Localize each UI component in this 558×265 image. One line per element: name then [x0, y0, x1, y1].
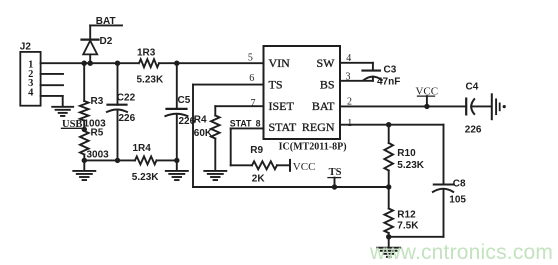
svg-text:226: 226 [119, 113, 136, 124]
svg-text:1R3: 1R3 [137, 48, 156, 59]
svg-text:5.23K: 5.23K [397, 160, 424, 171]
svg-text:5.23K: 5.23K [137, 75, 164, 86]
svg-text:TS: TS [269, 77, 283, 91]
svg-text:BS: BS [320, 77, 335, 91]
svg-text:ISET: ISET [269, 99, 295, 113]
svg-text:7.5K: 7.5K [397, 221, 419, 232]
svg-text:1: 1 [347, 118, 352, 129]
svg-text:3003: 3003 [87, 150, 110, 161]
svg-text:C3: C3 [384, 64, 397, 75]
svg-text:R5: R5 [91, 128, 104, 139]
svg-text:www.cntronics.com: www.cntronics.com [369, 241, 553, 264]
svg-text:STAT: STAT [269, 120, 297, 134]
svg-text:47nF: 47nF [377, 76, 400, 87]
svg-text:R12: R12 [397, 209, 416, 220]
svg-text:TS: TS [329, 167, 342, 178]
svg-text:R3: R3 [91, 96, 104, 107]
svg-text:C8: C8 [453, 179, 466, 190]
svg-text:5.23K: 5.23K [132, 172, 159, 183]
svg-text:C22: C22 [117, 92, 136, 103]
svg-text:R10: R10 [397, 148, 416, 159]
svg-text:2K: 2K [252, 173, 266, 184]
svg-text:IC(MT2011-8P): IC(MT2011-8P) [279, 140, 347, 152]
svg-text:VIN: VIN [269, 56, 291, 70]
svg-text:C5: C5 [178, 95, 191, 106]
svg-text:REGN: REGN [302, 120, 335, 134]
svg-text:60K: 60K [194, 128, 213, 139]
svg-text:4: 4 [28, 88, 34, 99]
svg-text:C4: C4 [466, 81, 479, 92]
svg-text:STAT 8: STAT 8 [230, 118, 261, 128]
svg-text:D2: D2 [100, 36, 113, 47]
svg-text:BAT: BAT [96, 16, 116, 27]
svg-text:SW: SW [317, 56, 336, 70]
svg-text:5: 5 [248, 52, 253, 63]
svg-text:1R4: 1R4 [133, 143, 152, 154]
svg-text:BAT: BAT [312, 99, 335, 113]
svg-text:J2: J2 [20, 41, 32, 52]
svg-text:VCC: VCC [293, 161, 316, 173]
svg-text:226: 226 [465, 125, 482, 136]
svg-text:R4: R4 [194, 115, 207, 126]
svg-text:7: 7 [251, 98, 256, 109]
svg-text:R9: R9 [250, 145, 263, 156]
svg-text:6: 6 [249, 73, 254, 84]
svg-text:105: 105 [449, 195, 466, 206]
